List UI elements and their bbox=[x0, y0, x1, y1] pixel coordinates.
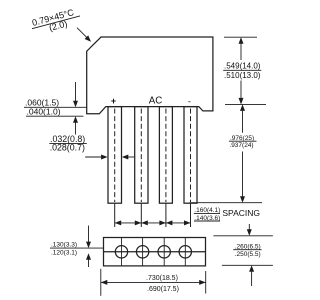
up arrow bbox=[239, 37, 244, 44]
hole 4 centerline bbox=[184, 238, 186, 266]
dimension .730/.690 (spacer width) bbox=[101, 269, 206, 296]
up arrow bbox=[240, 104, 245, 111]
left-pointing arrow to pin1 right bbox=[128, 156, 135, 158]
up arrow bbox=[73, 116, 78, 123]
svg-text:.130(3.3): .130(3.3) bbox=[51, 241, 77, 248]
hole 1 circle bbox=[115, 246, 127, 258]
top extension line bbox=[213, 235, 273, 237]
leader arrow from SPACING to spacer top bbox=[248, 224, 250, 231]
top extension line bbox=[224, 36, 257, 38]
hole 3 circle bbox=[158, 246, 170, 258]
hole 4 circle bbox=[179, 246, 191, 258]
bottom extension line bbox=[222, 264, 273, 266]
svg-text:-: - bbox=[188, 97, 191, 107]
spacer bar outline bbox=[104, 238, 206, 266]
pin 2 centerline extension bbox=[140, 203, 142, 227]
right extension line bbox=[205, 271, 207, 294]
mid extension line bbox=[225, 103, 266, 105]
svg-text:AC: AC bbox=[149, 95, 162, 106]
svg-text:.250(5.5): .250(5.5) bbox=[235, 251, 261, 258]
pin 3 bbox=[159, 107, 172, 204]
down arrow bbox=[242, 152, 244, 197]
pin 3 centerline dashed bbox=[165, 109, 167, 203]
down arrow bbox=[88, 226, 90, 244]
right-pointing arrow to pin1 left bbox=[85, 156, 102, 158]
spacer midline bbox=[104, 251, 206, 253]
svg-text:.937(24): .937(24) bbox=[229, 142, 253, 149]
svg-text:.120(3.1): .120(3.1) bbox=[51, 249, 77, 256]
hole 1 centerline bbox=[121, 238, 123, 266]
dimension .976/.937 (lead length) bbox=[190, 104, 263, 202]
dimension .549/.510 (body height) bbox=[223, 37, 266, 104]
dimension .060/.040 (left step) bbox=[24, 82, 87, 135]
up arrow bbox=[249, 265, 254, 272]
pin 1 centerline dashed bbox=[114, 109, 116, 203]
pin 4 centerline dashed bbox=[190, 109, 192, 203]
dimension .032/.028 (lead thickness) bbox=[49, 134, 134, 159]
pin 1 centerline extension bbox=[114, 203, 116, 227]
up arrow bbox=[86, 253, 91, 259]
dimension .160/.140 spacing bbox=[115, 207, 260, 236]
svg-text:.730(18.5): .730(18.5) bbox=[146, 275, 178, 282]
dimension .260/.250 (spacer height) bbox=[213, 236, 273, 286]
pin 3 centerline extension bbox=[165, 203, 167, 227]
pin 4 centerline extension bbox=[190, 203, 192, 227]
pin 1 bbox=[108, 107, 122, 204]
pin 2 centerline dashed bbox=[140, 109, 142, 203]
dimension line bbox=[101, 281, 206, 283]
lead-end extension line bbox=[190, 202, 263, 204]
svg-text:.690(17.5): .690(17.5) bbox=[147, 286, 179, 293]
chamfer dimension note 0.79x45deg bbox=[31, 7, 91, 42]
down arrow bbox=[75, 82, 77, 102]
svg-text:+: + bbox=[111, 96, 116, 106]
chamfer leader arrow bbox=[77, 28, 88, 39]
svg-text:.549(14.0): .549(14.0) bbox=[224, 62, 261, 71]
hole 3 centerline bbox=[163, 238, 165, 266]
down arrow bbox=[240, 81, 242, 99]
svg-text:.510(13.0): .510(13.0) bbox=[224, 71, 261, 80]
svg-text:.028(0.7): .028(0.7) bbox=[50, 142, 85, 152]
pin 4 bbox=[184, 107, 197, 204]
left extension line bbox=[100, 269, 102, 296]
dimension .130/.120 (spacer plate thickness) bbox=[50, 226, 104, 268]
hole 2 centerline bbox=[142, 238, 144, 266]
hole 2 circle bbox=[136, 246, 148, 258]
body outline bbox=[87, 37, 213, 114]
pin 2 bbox=[135, 107, 148, 204]
spacing dimension line with arrows bbox=[115, 222, 191, 224]
svg-text:.040(1.0): .040(1.0) bbox=[27, 107, 61, 117]
svg-text:SPACING: SPACING bbox=[222, 208, 260, 218]
